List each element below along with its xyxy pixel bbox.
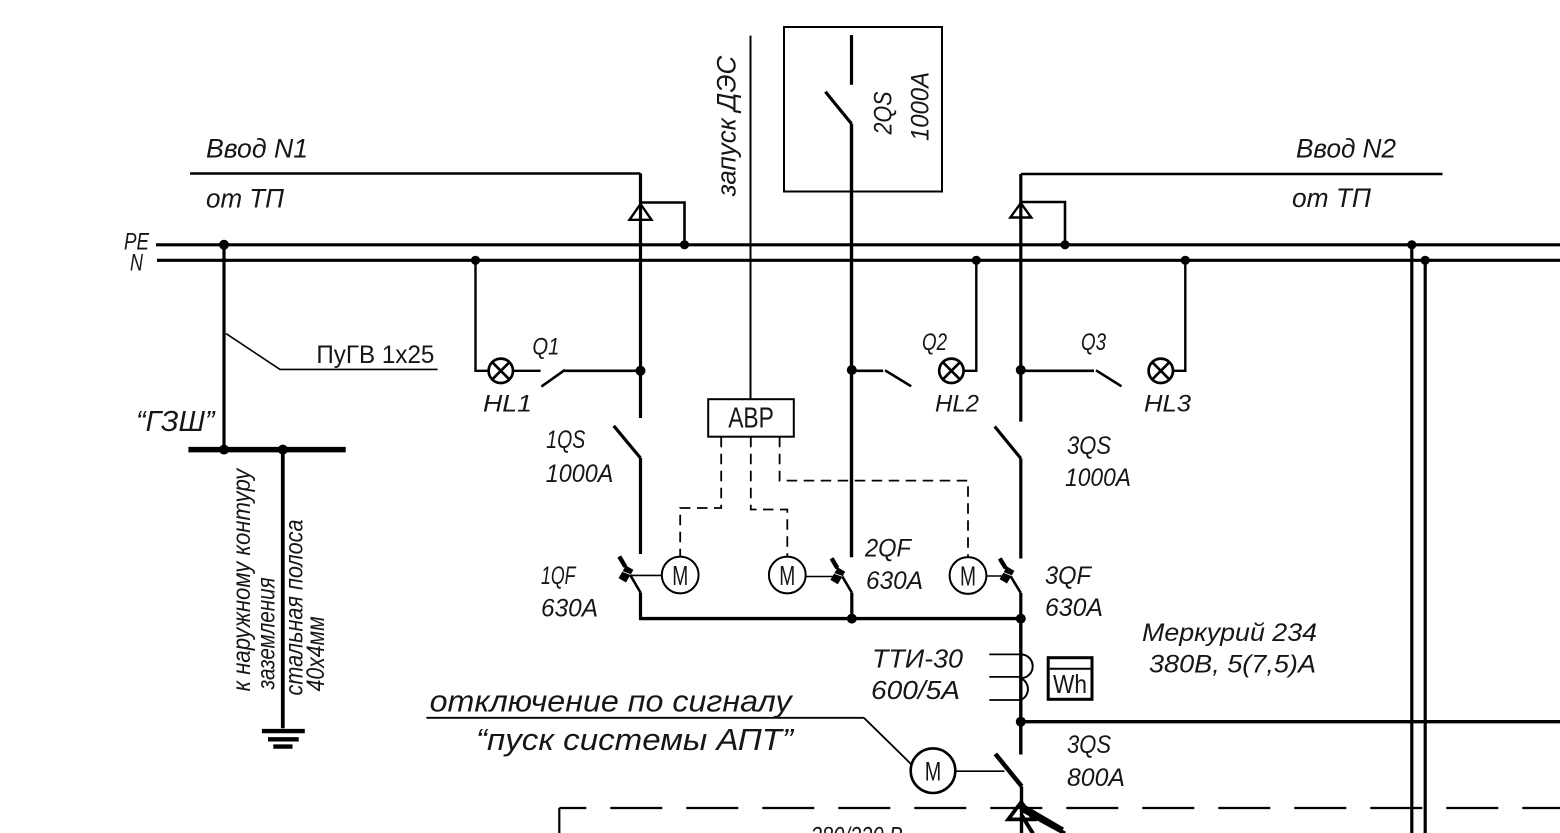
bus N — [157, 259, 1560, 262]
breaker 1QF blade — [619, 557, 640, 593]
svg-text:M: M — [672, 560, 688, 591]
lamp HL2 — [939, 359, 963, 383]
ground — [262, 731, 305, 747]
svg-text:Wh: Wh — [1053, 669, 1087, 699]
svg-text:380/220 В: 380/220 В — [811, 823, 903, 833]
box АВР — [708, 399, 794, 437]
svg-text:HL1: HL1 — [483, 391, 532, 418]
wire: 1QF out — [639, 593, 642, 619]
CT secondary ticks — [989, 654, 1021, 700]
svg-text:Q2: Q2 — [922, 329, 947, 356]
disconnector 2QS blade — [825, 92, 851, 124]
svg-text:1000А: 1000А — [546, 460, 614, 488]
svg-text:1000А: 1000А — [907, 72, 935, 141]
arrester triangle feeder N1 — [630, 204, 652, 220]
panel boundary dashed — [559, 807, 1560, 809]
svg-text:3QS: 3QS — [1067, 432, 1111, 460]
svg-text:M: M — [960, 560, 976, 591]
motor drive M2 — [769, 557, 806, 594]
svg-text:600/5А: 600/5А — [871, 675, 960, 705]
svg-text:M: M — [779, 560, 795, 591]
wire: PE riser right — [1410, 245, 1413, 833]
wire: M3 to 3QF — [986, 575, 1003, 577]
wire: feeder N1 vertical — [639, 174, 642, 419]
wire: 3QS to 3QF — [1019, 458, 1022, 558]
outgoing triangle — [1008, 802, 1033, 819]
wire: 3QS800 down — [1020, 786, 1023, 833]
breaker 3QF release box — [1000, 567, 1015, 584]
wire: feeder N2 vertical — [1019, 174, 1022, 422]
wire: N riser right — [1424, 260, 1427, 833]
svg-text:HL2: HL2 — [935, 391, 979, 418]
breaker 1QF release box — [619, 566, 634, 583]
svg-text:380В, 5(7,5)А: 380В, 5(7,5)А — [1149, 650, 1316, 678]
svg-text:АВР: АВР — [728, 403, 774, 435]
svg-text:заземления: заземления — [253, 577, 281, 690]
wire: Q1 to feeder — [564, 369, 641, 372]
control dashed wire to M2 — [751, 437, 788, 557]
junction dot bar left — [219, 445, 229, 455]
outgoing arrow 1 — [1022, 806, 1063, 830]
svg-text:630А: 630А — [866, 567, 923, 595]
motor drive M (АПТ) — [911, 748, 956, 793]
meter Wh box — [1048, 658, 1092, 700]
svg-text:HL3: HL3 — [1144, 391, 1192, 418]
svg-text:“пуск системы АПТ”: “пуск системы АПТ” — [476, 722, 795, 757]
wire: HL2 to N — [964, 260, 977, 371]
wire: bus to CT — [1019, 619, 1022, 722]
svg-text:3QS: 3QS — [1067, 731, 1111, 759]
disconnector 2QS — [850, 35, 853, 85]
disconnector 3QS 800A blade — [995, 754, 1021, 786]
current transformer ТТИ-30 coils — [1021, 654, 1033, 700]
switch Q1 blade — [541, 370, 565, 387]
wire: N1 stub to PE — [641, 203, 685, 245]
svg-text:от ТП: от ТП — [1292, 183, 1371, 213]
control dashed wire to M1 — [680, 437, 721, 557]
junction dot 2QF/bus — [847, 614, 857, 624]
wire: HL1 lead — [513, 370, 541, 372]
leader line ПуГВ — [226, 334, 438, 370]
wire: Ввод N2 underline — [1021, 173, 1443, 176]
junction dot PE/GZSh — [219, 240, 229, 250]
bus: section busbar 630A — [639, 617, 1021, 620]
bus: outgoing line — [1021, 720, 1560, 723]
junction dot Q3/feeder — [1016, 365, 1026, 375]
svg-text:Ввод N1: Ввод N1 — [206, 134, 308, 164]
wire: 1QF to M1 — [631, 574, 662, 576]
breaker 3QF blade — [1000, 559, 1021, 594]
svg-text:ПуГВ 1х25: ПуГВ 1х25 — [316, 341, 434, 369]
svg-text:Ввод N2: Ввод N2 — [1296, 134, 1396, 164]
svg-text:ТТИ-30: ТТИ-30 — [872, 643, 964, 673]
junction dot HL2/N — [972, 256, 981, 265]
svg-text:1QS: 1QS — [546, 426, 585, 454]
box 2QS (ДЭС input) — [784, 27, 942, 192]
callout underline отключение — [426, 717, 864, 719]
motor drive M1 — [662, 557, 699, 594]
lamp HL1 — [489, 359, 513, 383]
wire: 3QF out — [1019, 593, 1022, 619]
svg-text:N: N — [130, 250, 143, 277]
junction dot 3QF/bus — [1016, 614, 1026, 624]
panel boundary corner — [558, 808, 560, 833]
junction dot N/HL1 — [471, 256, 480, 265]
svg-text:2QS: 2QS — [870, 91, 898, 135]
svg-text:Q1: Q1 — [532, 334, 559, 361]
outgoing arrow 2 — [1022, 810, 1065, 833]
junction dot bar right — [278, 445, 288, 455]
arrester triangle feeder N2 — [1010, 203, 1031, 218]
junction dot outgoing — [1016, 717, 1026, 727]
svg-text:630А: 630А — [541, 595, 598, 623]
outgoing arrow 3 — [1022, 815, 1034, 833]
svg-text:M: M — [925, 756, 942, 786]
wire: Q2 — [852, 369, 883, 372]
wire: 2QF out — [850, 593, 853, 619]
svg-text:1QF: 1QF — [541, 562, 577, 590]
wire: M2 to 2QF — [806, 576, 837, 578]
wire: N to HL1 — [476, 260, 489, 371]
junction dot N2/PE — [1060, 240, 1069, 249]
bus PE — [156, 243, 1560, 246]
motor drive M3 — [950, 557, 987, 594]
disconnector 3QS blade — [995, 427, 1021, 459]
wire: N2 stub to PE — [1021, 202, 1065, 245]
svg-text:800А: 800А — [1067, 764, 1125, 792]
wire: 1QS to 1QF — [639, 458, 642, 554]
disconnector 1QS blade — [614, 426, 641, 458]
wire: HL3 to N — [1173, 260, 1185, 371]
lamp HL3 — [1149, 359, 1173, 383]
svg-text:Q3: Q3 — [1081, 329, 1107, 356]
switch Q2 blade — [885, 370, 911, 386]
svg-text:630А: 630А — [1045, 594, 1103, 622]
wire: запуск ДЭС control line — [750, 36, 752, 400]
svg-text:3QF: 3QF — [1045, 562, 1093, 590]
wire: PE to GZSh bar — [222, 245, 225, 450]
svg-text:“ГЗШ”: “ГЗШ” — [136, 406, 216, 438]
disconnector 3QS 800A stub — [1019, 722, 1022, 755]
wire: bar to earth — [281, 450, 285, 729]
breaker 2QF blade — [832, 558, 852, 593]
wire: M to 3QS800 — [955, 770, 1004, 772]
wire: Q3 — [1021, 369, 1094, 372]
wire: feeder 2QS vertical — [850, 124, 853, 558]
junction dot HL3/N — [1181, 256, 1190, 265]
wire: Ввод N1 underline — [190, 172, 641, 175]
junction dot N/right riser — [1421, 256, 1430, 265]
switch Q3 blade — [1096, 370, 1122, 386]
svg-text:отключение по сигналу: отключение по сигналу — [430, 684, 795, 719]
svg-text:запуск ДЭС: запуск ДЭС — [712, 55, 742, 197]
junction dot PE/right riser — [1407, 240, 1416, 249]
junction dot Q1/feeder — [636, 366, 646, 376]
svg-text:Меркурий 234: Меркурий 234 — [1142, 619, 1317, 647]
junction dot Q2/feeder — [847, 365, 857, 375]
svg-text:1000А: 1000А — [1065, 464, 1131, 492]
svg-text:40х4мм: 40х4мм — [302, 616, 330, 691]
control dashed wire to M3 — [780, 437, 968, 557]
breaker 2QF release box — [830, 567, 845, 584]
svg-text:от ТП: от ТП — [206, 184, 284, 214]
junction dot N1/PE — [680, 240, 689, 249]
leader to M — [864, 718, 912, 765]
busbar ГЗШ — [188, 447, 345, 453]
svg-text:2QF: 2QF — [864, 535, 913, 563]
